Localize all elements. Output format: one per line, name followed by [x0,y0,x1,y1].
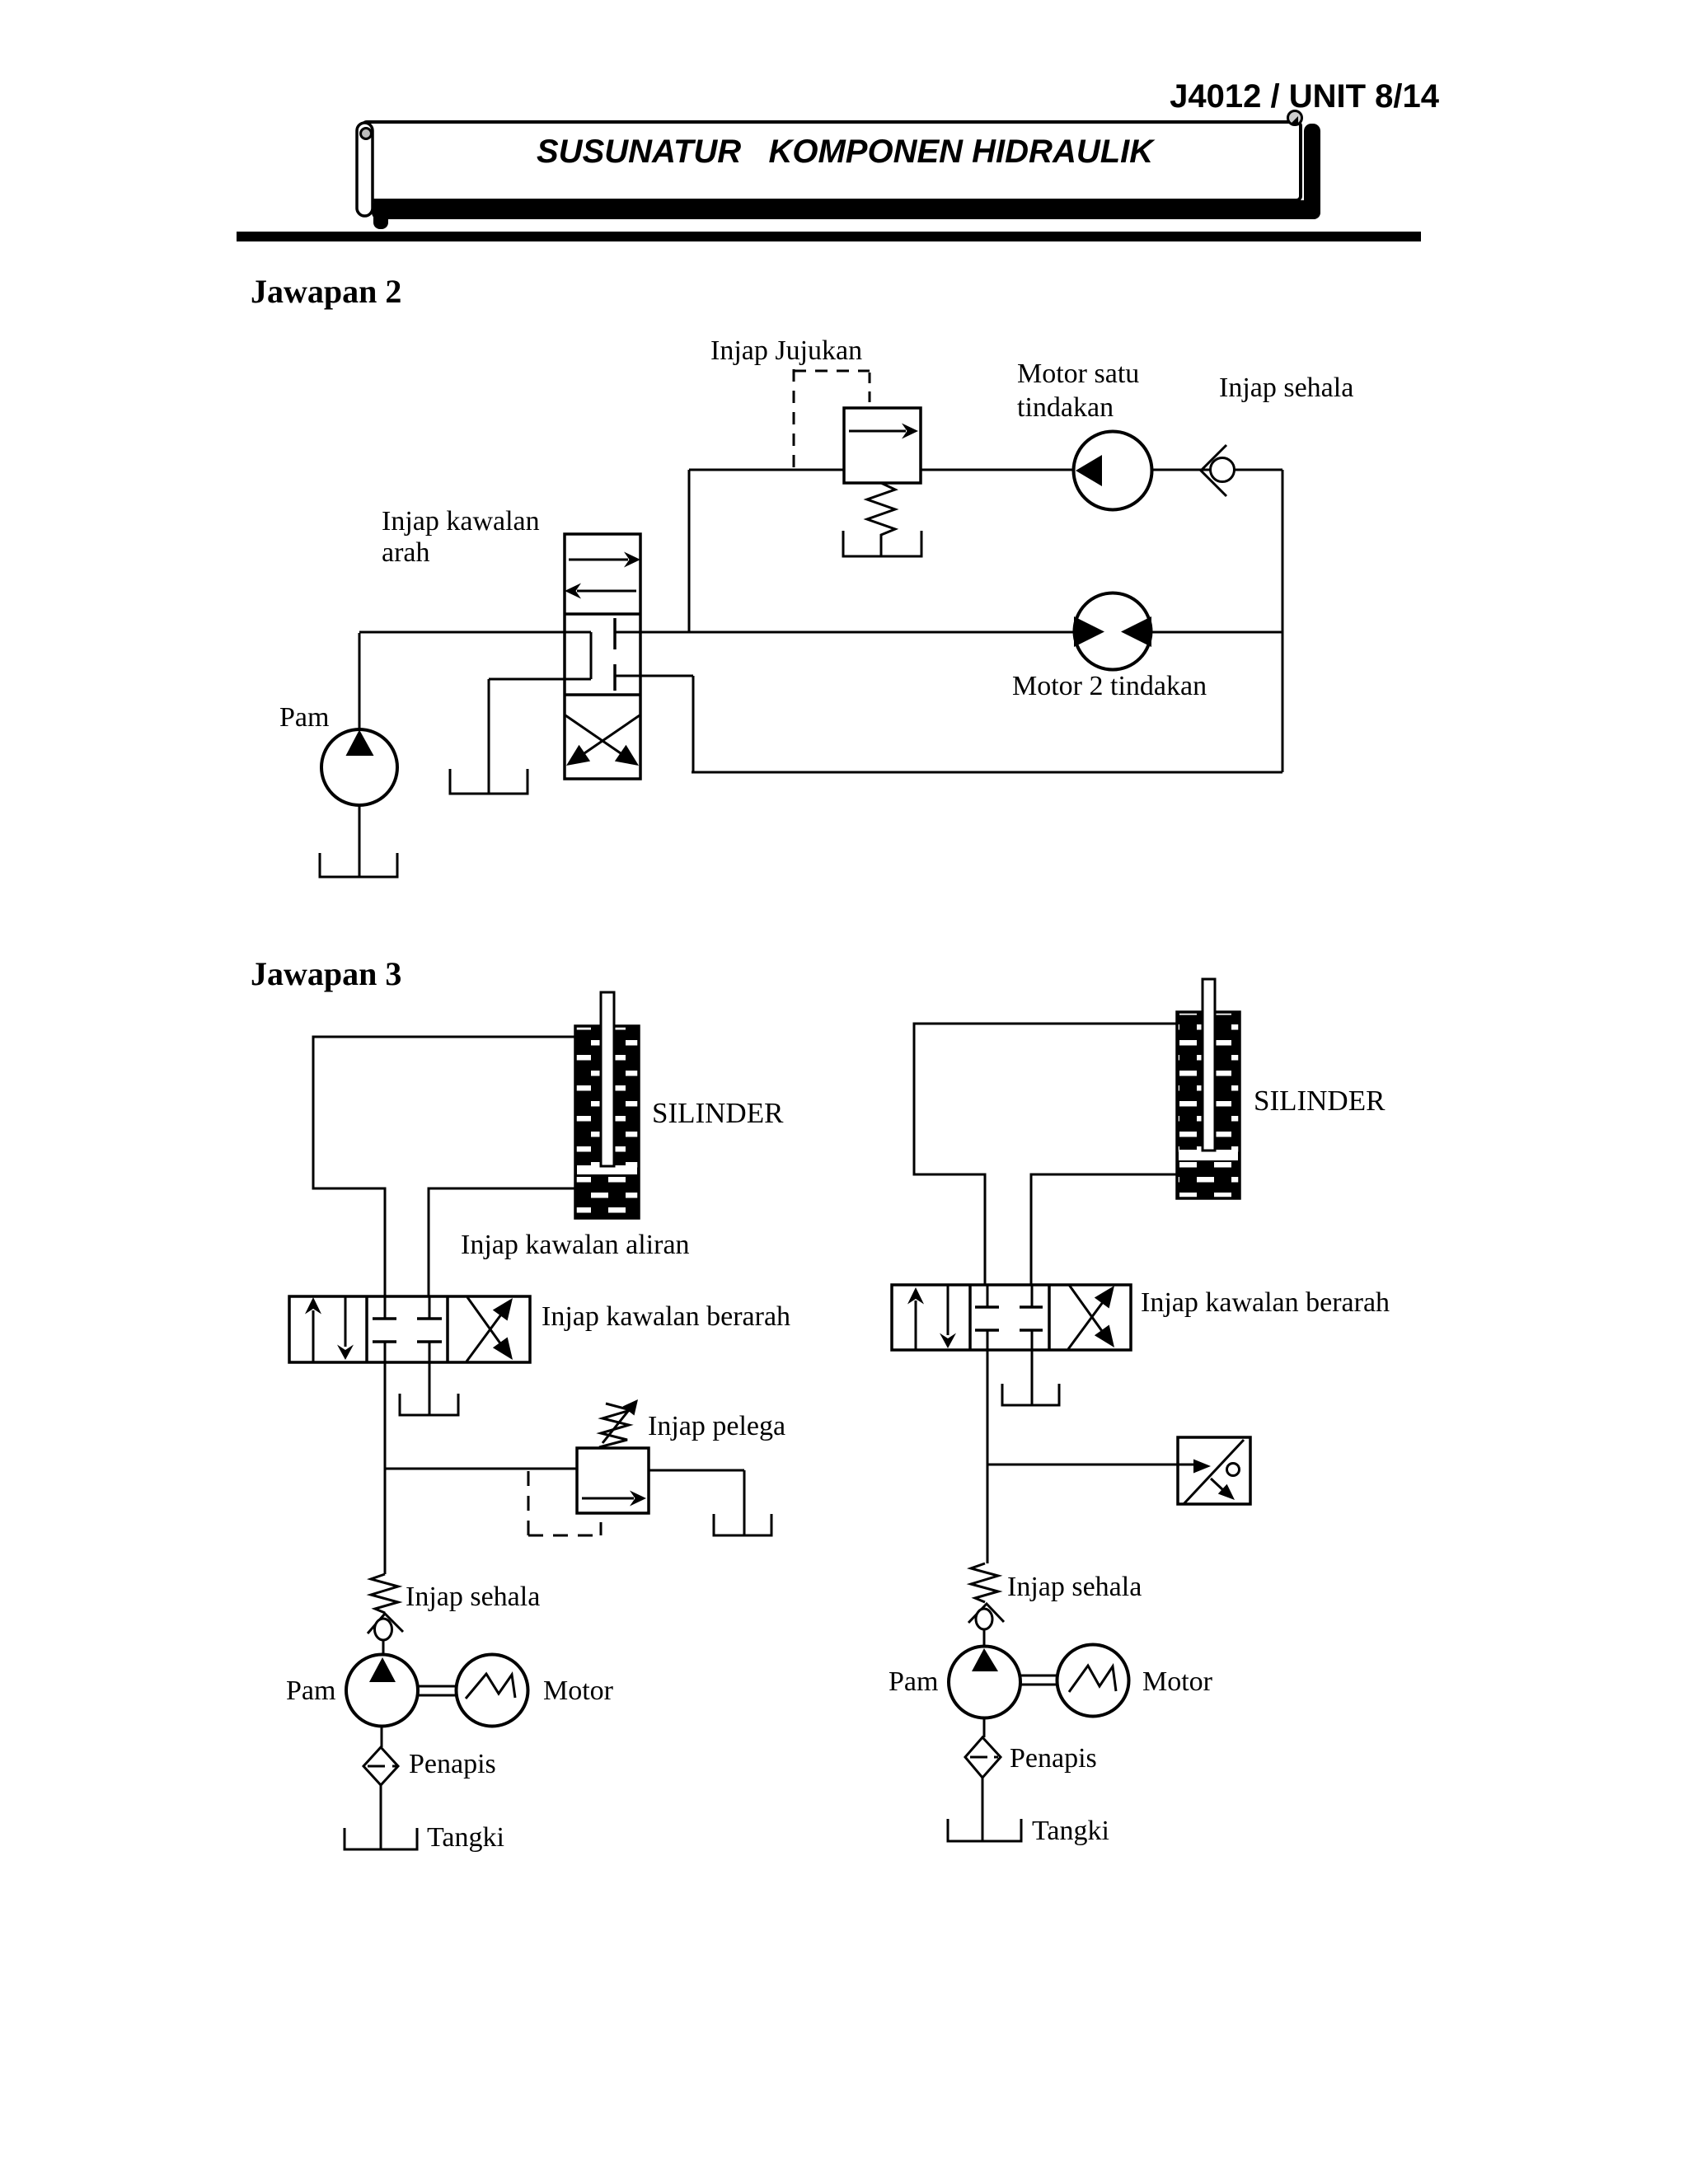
svg-text:Injap Jujukan: Injap Jujukan [710,335,862,366]
svg-text:Penapis: Penapis [1010,1743,1097,1774]
svg-text:arah: arah [382,537,430,568]
svg-text:Injap kawalan aliran: Injap kawalan aliran [461,1230,690,1260]
svg-text:Pam: Pam [889,1666,938,1697]
svg-text:Injap sehala: Injap sehala [1219,373,1353,403]
svg-text:Injap sehala: Injap sehala [1007,1572,1142,1602]
svg-text:J4012 / UNIT 8/14: J4012 / UNIT 8/14 [1170,78,1440,115]
svg-text:Injap kawalan: Injap kawalan [382,506,540,537]
svg-text:Jawapan 3: Jawapan 3 [251,955,401,992]
svg-text:Pam: Pam [279,702,329,733]
svg-text:Jawapan 2: Jawapan 2 [251,273,401,310]
svg-text:SUSUNATUR KOMPONEN HIDRAULIK: SUSUNATUR KOMPONEN HIDRAULIK [537,134,1156,170]
svg-text:Tangki: Tangki [1032,1816,1109,1846]
svg-text:Injap kawalan berarah: Injap kawalan berarah [542,1301,790,1332]
svg-text:Injap sehala: Injap sehala [406,1582,540,1612]
svg-text:Injap pelega: Injap pelega [648,1411,785,1441]
svg-text:Motor: Motor [1142,1666,1213,1697]
svg-text:Motor satu: Motor satu [1017,359,1139,389]
svg-text:SILINDER: SILINDER [1254,1085,1386,1117]
svg-text:Pam: Pam [286,1675,335,1706]
svg-text:Motor: Motor [543,1675,614,1706]
svg-text:Injap kawalan berarah: Injap kawalan berarah [1141,1287,1390,1318]
svg-text:Tangki: Tangki [427,1822,504,1853]
svg-text:Motor 2 tindakan: Motor 2 tindakan [1012,671,1207,701]
svg-text:tindakan: tindakan [1017,392,1114,423]
svg-text:Penapis: Penapis [409,1749,496,1779]
svg-text:SILINDER: SILINDER [652,1097,784,1129]
